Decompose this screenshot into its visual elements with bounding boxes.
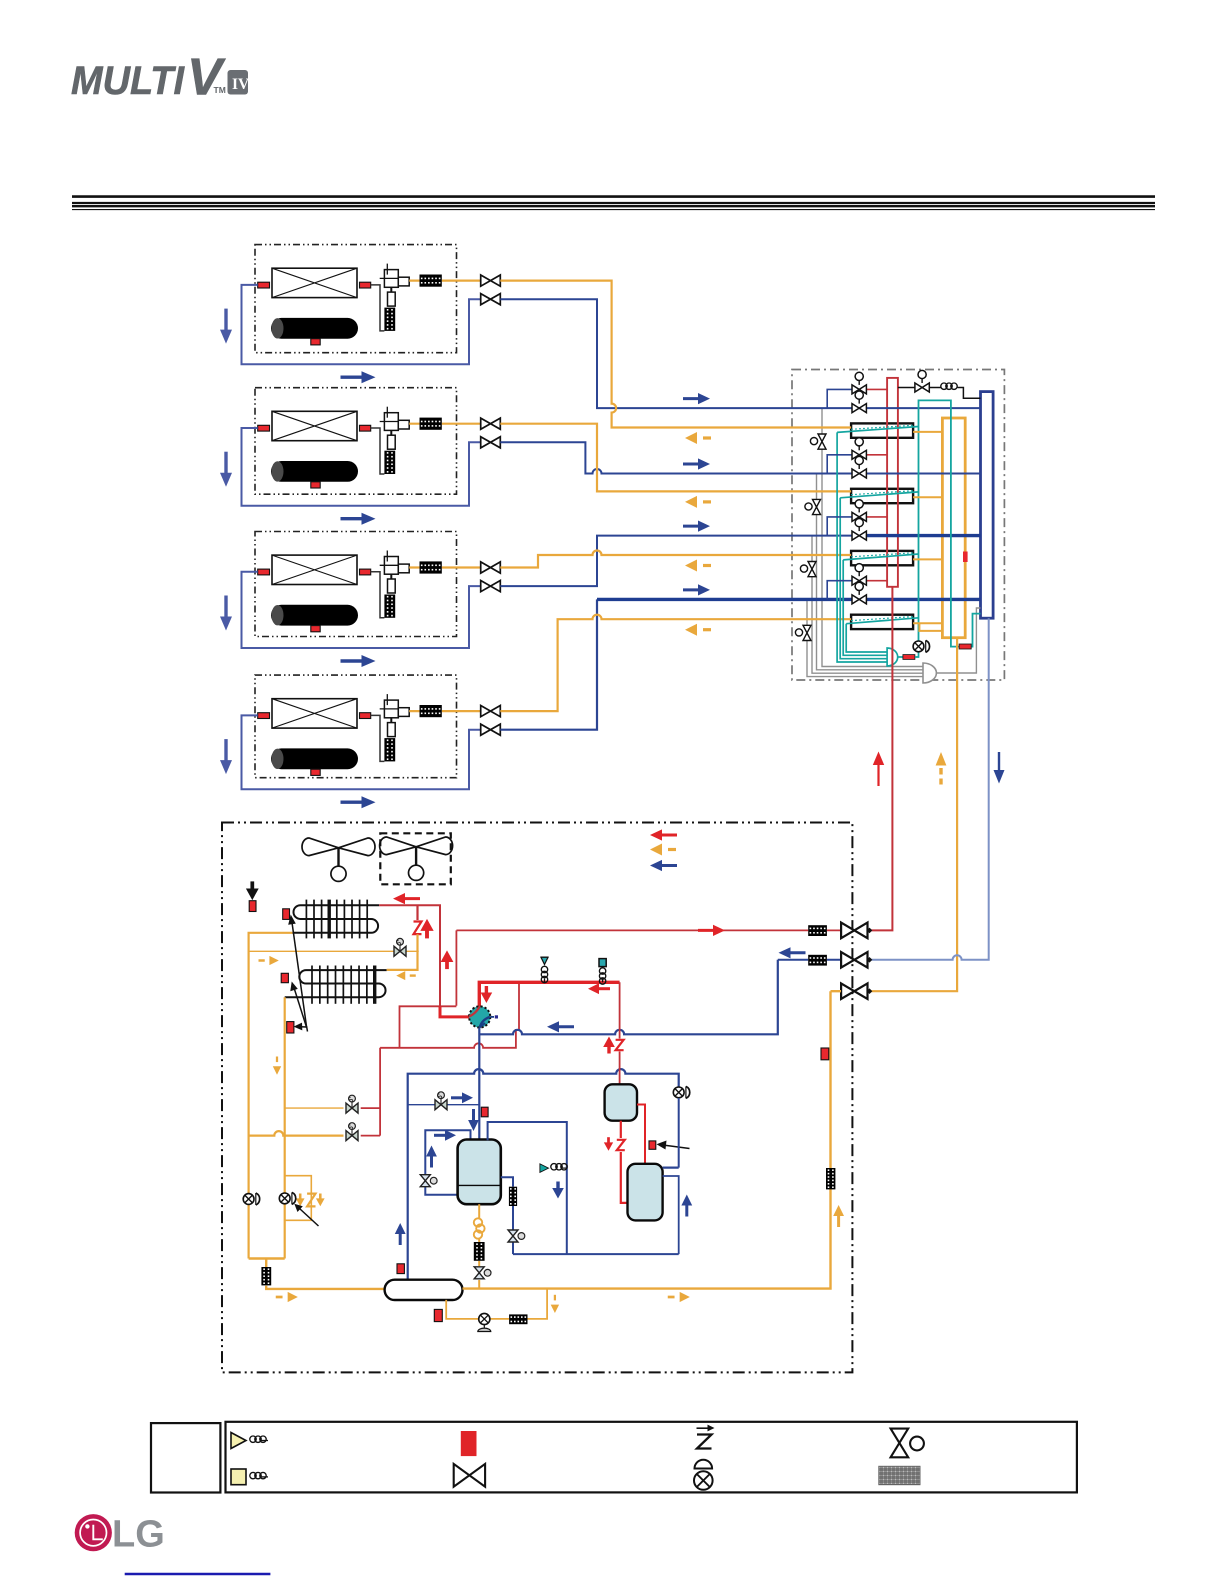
oil separator [605,1084,637,1120]
discharge strainer [808,925,827,936]
indoor unit 3 pipe sensor left [258,569,270,575]
indoor unit 1 cabinet [255,245,457,353]
indoor unit 3 fan cylinder [271,605,358,626]
indoor unit 2 EEV coil body [384,451,395,474]
gas flow arrow unit 3 [683,521,710,532]
separator oil return [621,1121,628,1203]
hot gas bypass network [380,982,519,1048]
HR header fills [887,378,898,587]
HX2 subcool coil path [840,492,918,498]
indoor unit 3 cylinder sensor [311,626,320,632]
unit 2 gas pipe to HR [500,442,980,473]
suction riser arrow [998,752,1000,771]
subcool branch arrow [259,956,279,965]
suction main 1 [479,960,778,1035]
indoor unit 4 airflow down arrow [220,739,232,774]
suction service valve [841,952,872,968]
suction main 2 [408,1069,679,1280]
drain sight glass [478,1313,491,1331]
coil sensor annotation arrows [292,923,308,1032]
bypass valve 1 [285,1107,344,1109]
indoor unit 3 liquid service valve [457,566,481,568]
HR unit cabinet [792,370,1004,681]
HR service valve 1 [810,434,826,449]
indoor unit 4 pipe sensor right [360,713,371,719]
liquid flow arrow unit 3 [685,560,711,572]
HX2 subcool drop line [840,498,887,659]
coil 1 check valve [416,905,418,920]
high pressure sensor [599,959,606,985]
indoor unit 2 liquid line strainer [409,423,456,425]
liquid flow arrow unit 2 [685,496,711,508]
liquid service valve [841,983,872,999]
unit 3 gas pipe to HR [500,536,852,587]
HR service valve 2 [805,499,821,514]
capillary [540,1164,567,1173]
liquid main line [463,991,842,1288]
drain sensor [434,1309,442,1321]
accumulator [628,1164,663,1221]
suction riser (light blue) [868,618,989,960]
HR suction solenoid valve unit 2 [852,456,866,478]
legend sight glass [694,1460,713,1490]
compressor oil drain [478,1204,480,1288]
4-way valve [469,1006,498,1027]
HR distributor sensor [903,655,915,660]
separator feed [619,982,621,1084]
HX3 subcool coil path [843,554,918,560]
discharge main (thick) [479,982,619,1006]
HR hot-gas solenoid valve unit 1 [827,389,852,408]
indoor unit 4 cylinder sensor [311,769,320,775]
coil 2 sensor [281,973,288,982]
unit 2 liquid pipe to HR [500,424,851,492]
HR liquid header [942,418,965,638]
liquid riser (orange) [868,638,958,992]
unit 1 liquid pipe to HR [500,281,851,428]
receiver top sensor [397,1264,404,1274]
indoor unit 1 gas service valve [481,294,501,305]
HR hot gas header [887,378,898,587]
flow legend arrows [650,829,677,840]
coil 1 sensor [283,909,290,920]
HR subcool distributor [887,648,898,666]
indoor unit 3 cabinet [255,532,457,637]
indoor unit 3 liquid line strainer [409,566,456,568]
indoor unit 3 heat exchanger [272,555,357,584]
oil return loop [425,1130,470,1195]
outdoor fan 1 [302,838,375,881]
discharge service valve [841,923,872,939]
annotation arrow to sight glass [300,1209,319,1227]
HX1 liquid out [913,431,942,433]
HX4 liquid out [913,623,942,631]
compressor [458,1140,501,1205]
gas flow arrow unit 2 [683,458,710,469]
liquid line strainer [826,1168,835,1189]
HR oil capillary coil [941,383,957,389]
HR suction header [981,392,994,619]
HR plate heat exchanger 1 [851,423,913,437]
liquid collector line [249,1259,385,1289]
indoor unit 1 pipe sensor left [258,282,270,288]
HR unit charge line 1 [822,408,923,666]
ambient sensor arrow [246,881,259,900]
gas flow arrow unit 1 [683,393,710,404]
indoor unit 3 airflow down arrow [220,596,232,631]
compressor discharge loop [488,1122,679,1254]
indoor unit 1 fan cylinder [271,318,358,339]
legend strainer [879,1466,920,1484]
liquid sight glass 2 [279,1192,295,1204]
HX1 subcool drop line [837,432,887,662]
indoor unit 2 airflow down arrow [220,452,232,487]
indoor unit 1 suction loop pipe [242,285,481,364]
HR service valve 3 [800,562,816,577]
legend frame small [151,1423,220,1492]
indoor unit 3 EEV coil body [384,595,395,618]
indoor unit 1 electronic expansion valve [380,264,409,307]
indoor unit 3 electronic expansion valve [380,551,409,594]
HX2 liquid out [913,496,942,498]
HR unit charge line 4 [807,599,923,676]
unit 4 liquid pipe to HR [500,615,851,711]
suction service line [778,959,868,961]
sensor annotation arrow [661,1145,690,1149]
indoor unit 4 pipe sensor left [258,713,270,719]
indoor unit 4 suction loop pipe [242,715,481,789]
indoor unit 2 cylinder sensor [311,482,320,488]
indoor unit 4 gas service valve [481,724,501,735]
svg-text:LG: LG [112,1514,165,1556]
LG logo [75,1514,165,1556]
4-way valve feed [440,1006,469,1017]
indoor unit 1 cylinder sensor [311,339,320,345]
unit 3 liquid pipe to HR [500,551,851,568]
legend service valve [891,1429,924,1458]
oil return valve 2 [508,1230,525,1242]
drain strainer [509,1314,527,1324]
ambient air sensor [249,901,256,912]
legend thermistor (liquid) [231,1433,268,1449]
indoor unit 1 liquid line strainer [409,280,456,282]
accumulator inlet sensor [649,1141,656,1149]
indoor unit 3 suction loop pipe [242,572,481,648]
suction strainer [808,955,827,966]
HR plate heat exchanger 2 [851,489,913,503]
HR suction solenoid valve unit 4 [852,582,866,604]
svg-text:TM: TM [214,85,226,95]
HR unit charge line 2 [817,474,924,670]
horizontal rule [72,197,1155,210]
defrost solenoid line [249,950,419,952]
liquid sight glass 1 [243,1193,259,1205]
HX4 subcool coil path [846,618,918,624]
coil 2 liquid arrow [396,971,416,980]
outdoor coil 2 [285,970,387,997]
indoor unit 2 cabinet [255,388,457,495]
compressor suction sensor [481,1107,488,1117]
indoor unit 3 flow arrow below [341,655,376,667]
outdoor coil 1 [292,905,379,933]
svg-text:IV: IV [232,76,250,93]
discharge riser up arrow [441,950,454,969]
accumulator outlet [663,1176,679,1254]
unit 4 gas pipe to HR [500,599,597,729]
HR subcool sensor [959,644,971,649]
discharge riser arrow [877,764,879,786]
indoor unit 1 liquid service valve [457,280,481,282]
indoor unit 2 EEV piping [371,428,385,474]
HR plate heat exchanger 4 [851,615,913,629]
indoor unit 2 pipe sensor right [360,425,371,431]
liquid line sensor right [821,1048,829,1060]
HX4 subcool drop line [846,624,887,652]
HR oil solenoid valve [915,370,929,392]
svg-text:MULTI: MULTI [71,59,185,103]
suction line from 4-way [478,1028,480,1140]
svg-text:V: V [187,49,226,107]
indoor unit 4 EEV coil body [384,738,395,761]
indoor unit 4 flow arrow below [341,796,376,808]
HR service valve 4 [795,625,811,640]
footer rule [125,1573,271,1575]
HR sight glass [913,640,929,652]
check valve arrow [420,919,433,939]
suction sight glass [673,1086,689,1098]
liquid line sensor [287,1022,294,1033]
indoor unit 1 flow arrow below [341,371,376,383]
accumulator inlet [663,1166,679,1168]
indoor unit 2 gas service valve [481,437,501,448]
HX3 liquid out [913,558,942,560]
HR suction solenoid valve unit 1 [852,391,866,413]
legend valve [454,1464,485,1487]
oil return valve [420,1175,437,1187]
indoor unit 2 flow arrow below [341,513,376,525]
indoor unit 4 cabinet [255,675,457,778]
discharge riser (red) [868,587,893,931]
indoor unit 1 EEV piping [371,285,385,331]
indoor unit 4 fan cylinder [271,748,358,769]
HR hot-gas solenoid valve unit 3 [827,517,852,536]
outdoor unit cabinet [222,823,852,1373]
HR unit charge line 3 [812,536,923,674]
indoor unit 2 heat exchanger [272,411,357,440]
indoor unit 3 EEV piping [371,572,385,618]
indoor unit 2 suction loop pipe [242,428,481,506]
indoor unit 4 heat exchanger [272,699,357,728]
high pressure switch [541,957,549,982]
indoor unit 1 heat exchanger [272,268,357,297]
liquid flow arrow unit 1 [685,432,711,444]
HR subcool gas line [919,400,960,646]
indoor unit 4 EEV piping [371,715,385,761]
coil 1 hot gas line [379,905,440,1006]
liquid flow arrow unit 4 [685,624,711,636]
indoor unit 1 airflow down arrow [220,309,232,344]
MULTI V IV logo [71,49,250,107]
HR charge distributor [923,663,936,683]
HR hot-gas solenoid valve unit 2 [827,455,852,474]
receiver [385,1280,463,1300]
receiver vapor bypass [408,1104,480,1106]
HX1 subcool coil path [837,427,918,433]
bypass valve 2 [249,1131,344,1136]
defrost solenoid valve [394,938,406,956]
HR oil balance line [898,388,981,399]
gas flow arrow unit 4 [683,584,710,595]
legend sensor [461,1431,477,1456]
legend frame main [226,1422,1077,1493]
indoor unit 4 liquid service valve [457,710,481,712]
HR liquid header sensor [963,552,968,563]
HR suction solenoid valve unit 3 [852,519,866,541]
HR hot-gas solenoid valve unit 4 [827,581,852,600]
liquid drop line 1 [249,933,293,1259]
indoor unit 2 fan cylinder [271,461,358,482]
indoor unit 2 pipe sensor left [258,425,270,431]
outdoor fan 2 (dashed option box) [380,833,451,884]
unit 1 gas pipe to HR [500,299,980,408]
oil drain valve [474,1267,491,1279]
HR subcool return to header [971,614,980,647]
indoor unit 1 pipe sensor right [360,282,371,288]
liquid drop line 2 [284,997,286,1258]
indoor unit 2 electronic expansion valve [380,407,409,450]
indoor unit 4 electronic expansion valve [380,694,409,737]
indoor unit 2 liquid service valve [457,423,481,425]
discharge service line [440,930,868,1006]
legend thermistor (air) [231,1469,268,1485]
separator to accumulator [637,1105,645,1164]
receiver drain branch [446,1289,547,1319]
subcool EEV bypass [285,1176,312,1221]
indoor unit 1 EEV coil body [384,308,395,331]
HR plate heat exchanger 3 [851,551,913,565]
HX3 subcool drop line [843,560,887,655]
liquid riser arrow [939,768,942,785]
legend check valve [697,1428,712,1448]
compressor suction arrow [468,1109,479,1131]
indoor unit 3 pipe sensor right [360,569,371,575]
indoor unit 4 liquid line strainer [409,710,456,712]
indoor unit 3 gas service valve [481,581,501,592]
